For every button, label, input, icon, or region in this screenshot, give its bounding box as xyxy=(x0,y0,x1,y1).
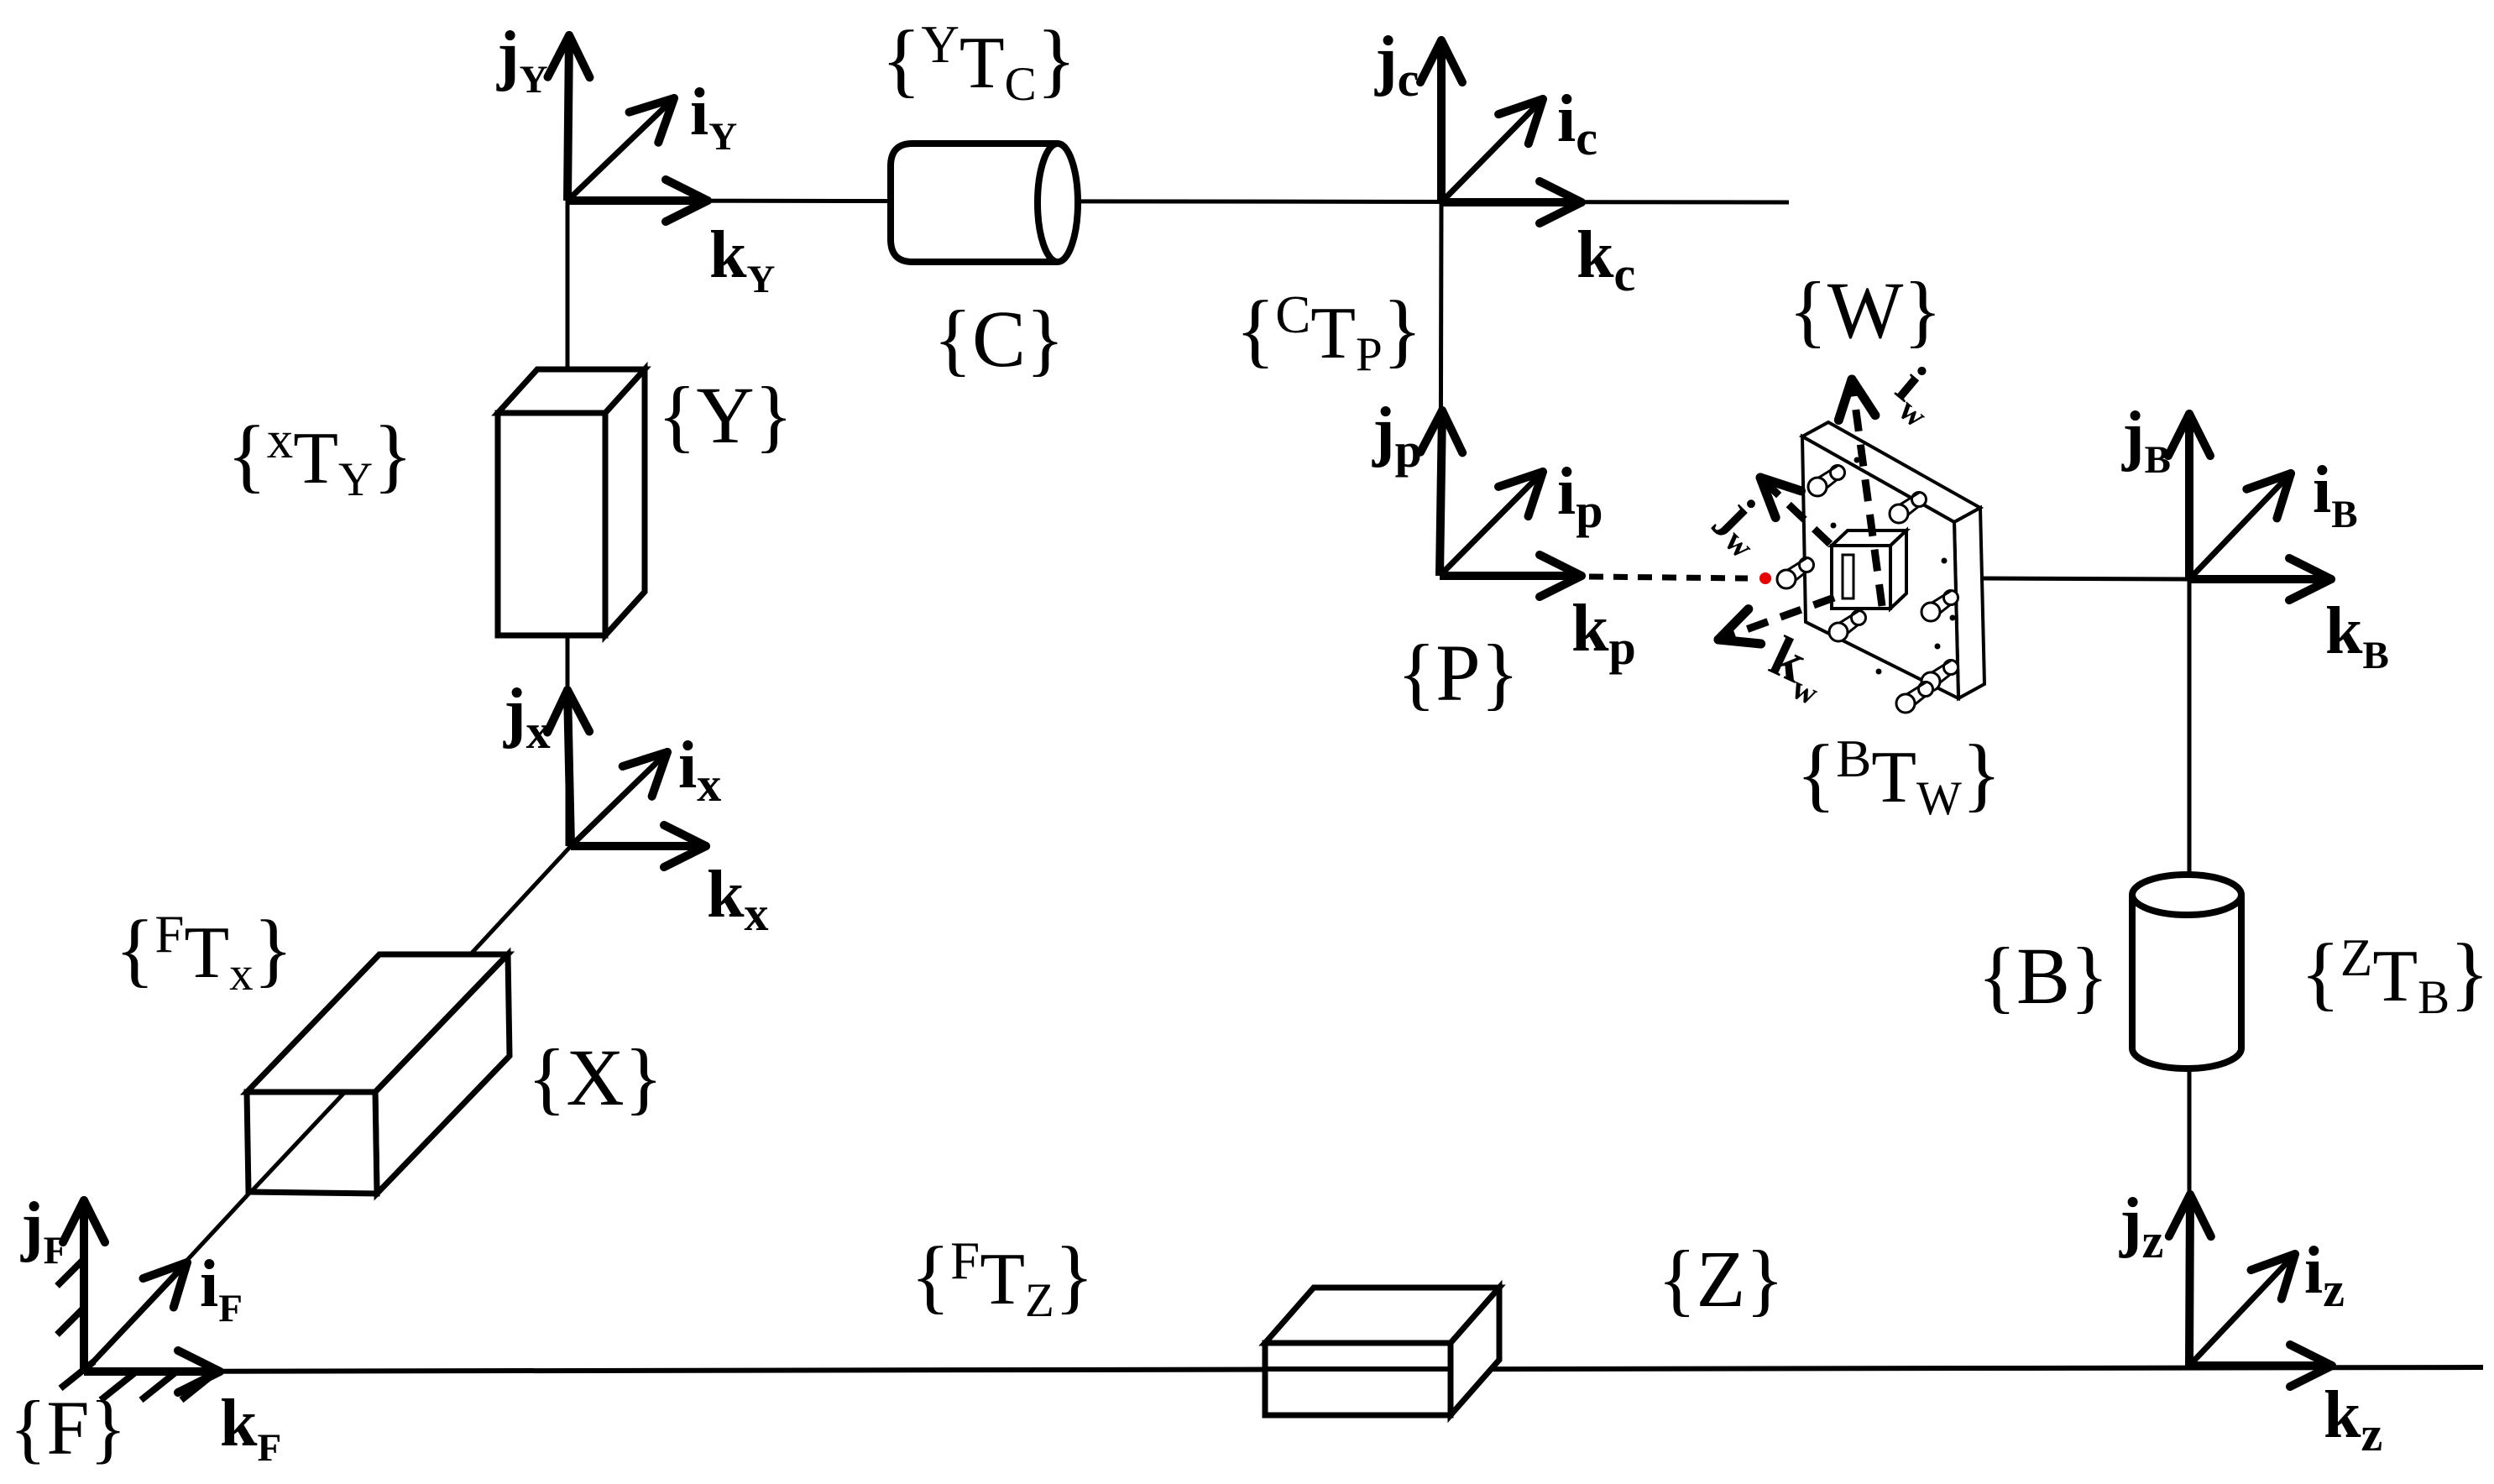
label ic xyxy=(1557,82,1597,165)
label iF xyxy=(200,1247,243,1330)
label iY xyxy=(690,76,737,159)
svg-text:{ZTB}: {ZTB} xyxy=(2300,927,2489,1024)
ground hatching on frame F xyxy=(57,1259,215,1400)
svg-text:{CTP}: {CTP} xyxy=(1236,285,1423,381)
label kp xyxy=(1571,592,1636,675)
label transform FTX xyxy=(115,904,293,1001)
label transform XTY xyxy=(227,410,413,506)
svg-text:{FTx}: {FTx} xyxy=(115,904,293,1001)
svg-text:{P}: {P} xyxy=(1397,628,1519,718)
dashed axis k_w xyxy=(1718,598,1834,644)
label transform CTP xyxy=(1236,285,1423,381)
svg-text:{BTW}: {BTW} xyxy=(1796,729,2002,825)
label kx xyxy=(707,858,769,941)
wire top rail Y-to-C-to-end xyxy=(567,201,1789,202)
label transform ZTB xyxy=(2300,927,2489,1024)
prism Z-axis slide block (on bottom rail) xyxy=(1265,1288,1499,1415)
svg-text:{Y}: {Y} xyxy=(657,370,792,460)
frame B axes xyxy=(2168,414,2331,600)
cylinder B (B-axis rotary joint) xyxy=(2132,875,2241,1069)
label frame Y xyxy=(657,370,792,460)
svg-text:{F}: {F} xyxy=(9,1385,126,1471)
label iw (rotated) xyxy=(1880,353,1957,435)
prism X-axis slide block (on F-to-X diagonal) xyxy=(247,954,510,1194)
label frame B xyxy=(1978,931,2109,1021)
label frame Z xyxy=(1658,1234,1785,1324)
workpiece center boss cube xyxy=(1832,530,1906,609)
label kw (rotated) xyxy=(1757,624,1838,713)
frame Z axes xyxy=(2169,1194,2332,1387)
dashed axis i_w xyxy=(1838,379,1882,606)
wire vertical column Y box (X origin up to Y origin) xyxy=(566,201,570,846)
label jp xyxy=(1372,395,1422,478)
frame C axes xyxy=(1420,40,1582,223)
label frame F xyxy=(9,1385,126,1471)
label jx xyxy=(503,676,551,759)
label transform YTC xyxy=(881,14,1076,111)
svg-text:{xTY}: {xTY} xyxy=(227,410,413,506)
label iz xyxy=(2304,1234,2345,1317)
dashed axis j_w xyxy=(1760,478,1830,544)
svg-text:{Z}: {Z} xyxy=(1658,1234,1785,1324)
label kY xyxy=(709,218,776,301)
wire diagonal F origin to X origin xyxy=(84,846,571,1372)
cylinder C (C-axis rotary joint) xyxy=(891,144,1078,262)
label transform BTW xyxy=(1796,729,2002,825)
label frame X xyxy=(527,1032,662,1122)
label jw (rotated) xyxy=(1704,485,1784,565)
label jc xyxy=(1374,24,1419,107)
wire vertical column C down to P origin xyxy=(1440,202,1441,576)
workpiece clamp bolts xyxy=(1777,466,1958,713)
wire workpiece to B origin xyxy=(1979,578,2189,579)
label frame P xyxy=(1397,628,1519,718)
svg-text:{B}: {B} xyxy=(1978,931,2109,1021)
workpiece fixture plate xyxy=(1802,422,1984,698)
svg-text:{X}: {X} xyxy=(527,1032,662,1122)
label transform FTZ xyxy=(911,1231,1095,1327)
wire bottom rail F to Z to right end xyxy=(84,1367,2483,1372)
label jz xyxy=(2119,1185,2163,1268)
label kF xyxy=(220,1387,281,1470)
frame F axes xyxy=(63,1200,220,1393)
label kc xyxy=(1576,218,1635,301)
svg-text:{C}: {C} xyxy=(933,294,1064,384)
dashed pointer P to workpiece xyxy=(1589,577,1748,578)
svg-text:{W}: {W} xyxy=(1789,265,1942,355)
label ip xyxy=(1557,455,1603,538)
wire vertical column B origin down to Z origin xyxy=(2188,579,2192,1366)
frame X axes xyxy=(547,690,706,867)
label frame C xyxy=(933,294,1064,384)
svg-text:{YTC}: {YTC} xyxy=(881,14,1076,111)
label ix xyxy=(678,729,721,812)
label kB xyxy=(2325,594,2389,677)
prism Y-axis slide block (on X-to-Y column) xyxy=(498,369,645,635)
red reference dot xyxy=(1759,572,1771,584)
label jF xyxy=(20,1189,67,1272)
frame P axes xyxy=(1420,410,1582,597)
label jY xyxy=(496,18,548,102)
svg-text:{FTZ}: {FTZ} xyxy=(911,1231,1095,1327)
label kz xyxy=(2324,1378,2382,1461)
frame Y axes xyxy=(548,35,708,222)
label jB xyxy=(2121,399,2171,482)
label iB xyxy=(2313,453,2358,536)
label frame W xyxy=(1789,265,1942,355)
